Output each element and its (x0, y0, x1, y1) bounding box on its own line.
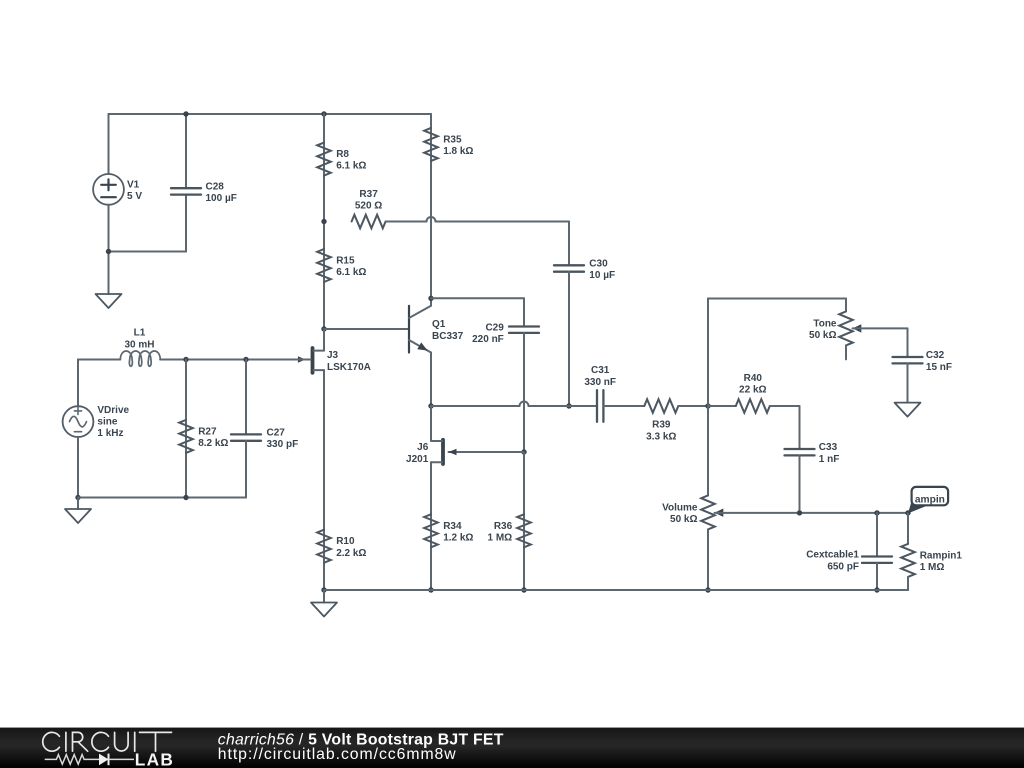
svg-text:1 MΩ: 1 MΩ (920, 562, 945, 573)
svg-text:V1: V1 (127, 179, 140, 190)
svg-text:C30: C30 (589, 259, 608, 270)
svg-text:C27: C27 (267, 428, 286, 439)
svg-text:BC337: BC337 (432, 331, 464, 342)
svg-text:2.2 kΩ: 2.2 kΩ (336, 548, 366, 559)
svg-text:1 nF: 1 nF (819, 454, 840, 465)
svg-text:6.1 kΩ: 6.1 kΩ (336, 267, 366, 278)
svg-text:C28: C28 (206, 181, 225, 192)
svg-text:50 kΩ: 50 kΩ (809, 330, 836, 341)
svg-text:1.8 kΩ: 1.8 kΩ (443, 146, 473, 157)
svg-text:R34: R34 (443, 521, 462, 532)
svg-text:R15: R15 (336, 256, 355, 267)
svg-text:Tone: Tone (813, 318, 837, 329)
svg-text:J6: J6 (417, 442, 429, 453)
svg-text:1 kHz: 1 kHz (97, 428, 123, 439)
svg-text:22 kΩ: 22 kΩ (739, 385, 766, 396)
svg-text:LAB: LAB (135, 750, 174, 768)
svg-text:3.3 kΩ: 3.3 kΩ (646, 431, 676, 442)
svg-text:100 µF: 100 µF (206, 193, 237, 204)
svg-text:L1: L1 (134, 328, 146, 339)
svg-text:R36: R36 (494, 521, 513, 532)
svg-text:Rampin1: Rampin1 (920, 550, 963, 561)
svg-text:C31: C31 (591, 365, 610, 376)
svg-text:R37: R37 (359, 189, 378, 200)
svg-text:R35: R35 (443, 134, 462, 145)
svg-text:R40: R40 (744, 373, 763, 384)
svg-text:LSK170A: LSK170A (327, 362, 371, 373)
svg-text:ampin: ampin (915, 494, 945, 505)
svg-text:650 pF: 650 pF (827, 561, 859, 572)
svg-text:R39: R39 (652, 420, 671, 431)
svg-text:1.2 kΩ: 1.2 kΩ (443, 532, 473, 543)
svg-text:10 µF: 10 µF (589, 270, 615, 281)
svg-text:6.1 kΩ: 6.1 kΩ (336, 161, 366, 172)
svg-text:8.2 kΩ: 8.2 kΩ (198, 438, 228, 449)
svg-text:R27: R27 (198, 426, 217, 437)
svg-text:http://circuitlab.com/cc6mm8w: http://circuitlab.com/cc6mm8w (218, 746, 457, 763)
svg-text:220 nF: 220 nF (472, 334, 504, 345)
svg-text:VDrive: VDrive (97, 405, 129, 416)
svg-text:330 pF: 330 pF (267, 439, 299, 450)
svg-text:50 kΩ: 50 kΩ (670, 514, 697, 525)
svg-text:C32: C32 (926, 350, 945, 361)
svg-text:R10: R10 (336, 536, 355, 547)
svg-text:J201: J201 (406, 454, 429, 465)
svg-text:R8: R8 (336, 149, 349, 160)
svg-text:5 V: 5 V (127, 191, 142, 202)
svg-text:520 Ω: 520 Ω (355, 200, 382, 211)
svg-text:Q1: Q1 (432, 319, 446, 330)
svg-text:C29: C29 (485, 322, 504, 333)
svg-text:J3: J3 (327, 350, 339, 361)
svg-text:C33: C33 (819, 442, 838, 453)
svg-text:1 MΩ: 1 MΩ (488, 532, 513, 543)
svg-text:Volume: Volume (662, 502, 698, 513)
svg-text:sine: sine (97, 417, 117, 428)
svg-text:15 nF: 15 nF (926, 362, 952, 373)
svg-text:Cextcable1: Cextcable1 (806, 550, 859, 561)
svg-text:330 nF: 330 nF (584, 377, 616, 388)
svg-text:30 mH: 30 mH (124, 339, 154, 350)
